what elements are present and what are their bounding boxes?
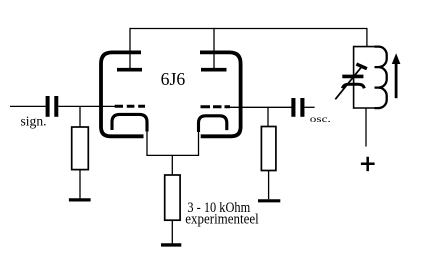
svg-text:6J6: 6J6	[161, 69, 186, 89]
wire: tank to plus supply	[365, 108, 367, 147]
ground (cathode resistor)	[161, 243, 181, 246]
anode plate, left triode	[117, 68, 142, 72]
wire: right grid to C2	[230, 106, 292, 108]
capacitor C3 (variable) straight plate	[342, 75, 363, 79]
svg-text:osc.: osc.	[310, 114, 331, 124]
wire: drop to grid-leak R2	[267, 107, 269, 126]
resistor R2 (osc grid leak)	[261, 127, 276, 171]
svg-text:sign.: sign.	[21, 114, 47, 129]
wire: drop to grid-leak R1	[79, 106, 81, 127]
node: tank bottom edge	[354, 107, 375, 109]
wire: cathode junction bar	[146, 154, 199, 156]
arrow through C3 (variable marker)	[335, 64, 367, 99]
wire: sign input stub	[10, 105, 46, 107]
capacitor C1 (sign coupling) plate 1	[46, 96, 50, 117]
cathode, left triode	[112, 114, 147, 131]
wire: left anode to bus	[129, 28, 131, 68]
node: tank top edge	[354, 46, 375, 48]
capacitor C1 plate 2	[54, 96, 58, 117]
tube U1 envelope right half	[200, 52, 241, 136]
wire: drop from bus to tank	[366, 28, 368, 47]
wire: R1 to ground	[79, 170, 81, 199]
tube U1 envelope left half	[101, 52, 144, 136]
label + (supply)	[361, 157, 375, 171]
ground (R2)	[258, 199, 280, 202]
wire: right anode to bus	[213, 28, 215, 68]
ground (R1)	[69, 198, 91, 201]
wire: common cathode drop	[171, 155, 173, 175]
inductor L1 coil	[375, 47, 387, 108]
svg-text:experimenteel: experimenteel	[185, 212, 258, 228]
wire: anode supply top bus	[130, 28, 367, 30]
arrow: output coupling indicator	[392, 53, 401, 98]
resistor R3 common cathode 3-10k	[165, 175, 180, 220]
grid, right triode (dashed)	[201, 105, 231, 108]
wire: C1 to left grid	[58, 105, 115, 107]
capacitor C2 plate 2	[300, 98, 304, 117]
wire: right cathode lead down	[198, 131, 200, 155]
anode plate, right triode	[201, 68, 227, 72]
wire: osc stub	[304, 106, 314, 108]
capacitor C2 (osc coupling) plate 1	[291, 98, 295, 117]
capacitor C3 curved plate	[342, 84, 364, 88]
wire: tank left branch	[353, 46, 355, 109]
resistor R1 (sign grid leak)	[72, 127, 89, 170]
grid, left triode (dashed)	[115, 105, 145, 108]
wire: left cathode lead down	[146, 131, 148, 156]
wire: R3 to ground	[171, 220, 173, 243]
cathode, right triode	[199, 116, 227, 132]
wire: R2 to ground	[268, 171, 270, 200]
